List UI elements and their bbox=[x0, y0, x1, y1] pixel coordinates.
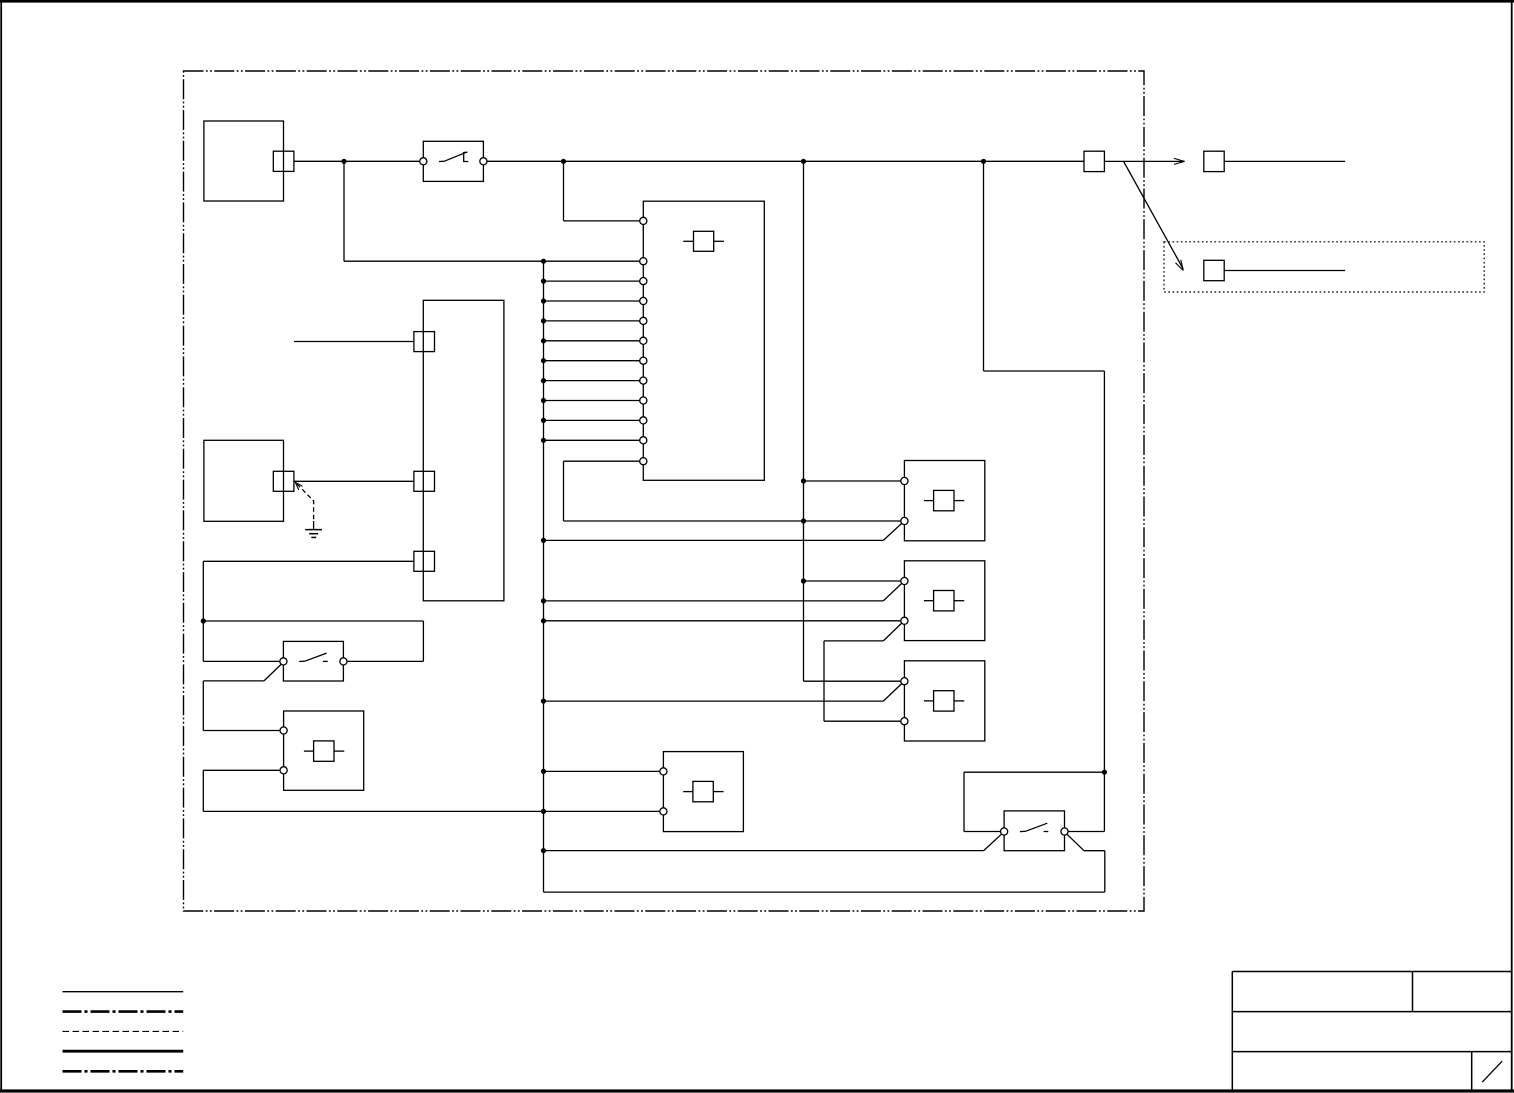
wire: into F1 lower pin bbox=[203, 769, 283, 771]
node: bus junction pin 2 bbox=[541, 279, 546, 284]
wire: left riser lower bbox=[202, 770, 204, 811]
node: relay bus at K2 upper bbox=[801, 578, 806, 583]
switch blade at K2 upper pin bbox=[883, 583, 902, 601]
arrowhead to C2 bbox=[1174, 158, 1185, 164]
wire: loop top to S2 right side bbox=[203, 620, 423, 622]
wire: from C3 onward bbox=[1224, 270, 1345, 272]
switch S2 box bbox=[283, 641, 343, 681]
wire: bus to U1 pin 9 bbox=[544, 419, 644, 421]
wire: into F1 upper pin bbox=[203, 730, 283, 732]
vehicle enclosure boundary (dash-dot-dot) bbox=[184, 71, 1145, 911]
node: junction main/branch A bbox=[341, 159, 346, 164]
pin: U1 9 bbox=[640, 417, 647, 424]
wire: bus to F2 upper pin bbox=[544, 770, 664, 772]
node: relay bus at K1 lower bbox=[801, 518, 806, 523]
legend: solid heavy line bbox=[63, 1050, 184, 1053]
relay K1 box bbox=[904, 461, 984, 541]
wire: relay bus end to K3 upper pin bbox=[804, 680, 905, 682]
dashed ground lead bbox=[297, 484, 314, 521]
fuse box F2 bbox=[663, 752, 743, 832]
wire: left riser upper bbox=[202, 561, 204, 661]
pin: U1 5 bbox=[640, 337, 647, 344]
pin: U1 top bbox=[640, 217, 647, 224]
legend: dashed thin line bbox=[63, 1030, 184, 1032]
wire: cross drop to K3 lower bbox=[823, 641, 825, 721]
node: junction main/relay bus bbox=[801, 159, 806, 164]
node: bus junction K3 blade bbox=[541, 699, 546, 704]
wire: right drop horizontal bbox=[984, 370, 1105, 372]
pin: U1 3 bbox=[640, 297, 647, 304]
component B2 (sensor box) bbox=[204, 440, 284, 521]
F1 fuse element bbox=[314, 741, 334, 761]
switch S2 fixed contact dash bbox=[323, 660, 328, 662]
pin: S3 left bbox=[1001, 828, 1008, 835]
K1 fuse left lead bbox=[924, 500, 934, 502]
ground lead solid end bbox=[313, 521, 315, 530]
K2 fuse right lead bbox=[954, 600, 964, 602]
pin: U1 7 bbox=[640, 377, 647, 384]
junction block J1 box bbox=[423, 300, 504, 601]
fuse box F1 bbox=[284, 711, 364, 790]
wire: right drop vertical bbox=[983, 161, 985, 371]
node: right feeder junction bbox=[1102, 770, 1107, 775]
node: junction main/U1 top feed bbox=[561, 159, 566, 164]
K1 fuse right lead bbox=[954, 500, 964, 502]
title block diagonal slash bbox=[1482, 1061, 1502, 1082]
pin: U1 8 bbox=[640, 397, 647, 404]
F1 fuse right lead bbox=[334, 750, 344, 752]
arrowhead on ground lead bbox=[295, 482, 302, 490]
node: bus junction pin 10 bbox=[541, 438, 546, 443]
K2 fuse element bbox=[934, 591, 954, 611]
wire: long run to F2 lower pin bbox=[203, 810, 663, 812]
wire: bus to U1 pin 7 bbox=[544, 380, 644, 382]
pin: U1 2 bbox=[640, 278, 647, 285]
switch blade at K2 lower pin bbox=[883, 622, 902, 641]
wire: to S2 external blade bbox=[203, 680, 264, 682]
wire: switch S1 to connector C1 bbox=[483, 160, 1084, 162]
pin: U1 4 bbox=[640, 317, 647, 324]
node: bus junction F2 upper bbox=[541, 769, 546, 774]
switch S3 blade bbox=[1026, 823, 1048, 831]
wire: bus to U1 pin 2 bbox=[544, 280, 644, 282]
arrowhead to C3 bbox=[1176, 260, 1184, 271]
wire: bus to U1 pin 6 bbox=[544, 360, 644, 362]
wire: U1 bottom to relay K1 lower pin bbox=[564, 520, 905, 522]
node: bus junction pin 6 bbox=[541, 358, 546, 363]
switch blade at K3 upper pin bbox=[883, 683, 902, 701]
wire: stub to J1 terminal 1 bbox=[294, 341, 414, 343]
node: junction main/right drop bbox=[981, 159, 986, 164]
switch S3 fixed contact dash bbox=[1044, 831, 1049, 833]
wire: bus to K2 upper blade bbox=[544, 600, 884, 602]
wire: bus to U1 pin 10 bbox=[544, 439, 644, 441]
wire: K2 lower blade feed bbox=[824, 640, 883, 642]
pin: F1 lower bbox=[280, 767, 287, 774]
connector terminal on B2 bbox=[273, 471, 294, 491]
node: bus junction S3 blade bbox=[541, 848, 546, 853]
wire: U1 bottom pin out bbox=[564, 460, 644, 462]
pin: S2 right bbox=[340, 658, 347, 665]
pin: S2 left bbox=[280, 658, 287, 665]
optional variant group (dotted box) bbox=[1164, 242, 1484, 292]
K2 fuse left lead bbox=[924, 600, 934, 602]
wire: bus to S3 left blade bbox=[544, 850, 984, 852]
pin: U1 1 bbox=[640, 258, 647, 265]
switch S1 fixed contact hook bbox=[464, 154, 469, 162]
wire: into S2 right pin bbox=[343, 660, 423, 662]
wire: U1 bottom drop bbox=[563, 461, 565, 521]
pin: K1 lower bbox=[901, 517, 908, 524]
U1 internal fuse right lead bbox=[714, 240, 724, 242]
title block row1 divider bbox=[1412, 972, 1414, 1012]
pin: K1 upper bbox=[901, 477, 908, 484]
ground symbol bbox=[305, 530, 322, 538]
pin: S3 right bbox=[1061, 828, 1068, 835]
connector terminal 2 on J1 bbox=[414, 471, 435, 491]
wire: battery to switch S1 bbox=[294, 160, 423, 162]
U1 internal fuse element bbox=[694, 231, 714, 251]
page bottom border bar bbox=[0, 1089, 1514, 1092]
node: relay bus at K1 upper bbox=[801, 478, 806, 483]
node: left riser junction bbox=[201, 618, 206, 623]
connector C3 (optional) bbox=[1204, 260, 1224, 280]
wire: drop to U1 top pin bbox=[563, 161, 565, 221]
node: bus junction pin 3 bbox=[541, 298, 546, 303]
wire: bus to U1 pin 5 bbox=[544, 340, 644, 342]
wire: bus to K2 lower pin bbox=[544, 620, 905, 622]
switch S2 blade bbox=[305, 653, 327, 661]
U1 internal fuse left lead bbox=[683, 240, 693, 242]
pin: K2 lower bbox=[901, 617, 908, 624]
wire: left riser middle bbox=[202, 681, 204, 731]
wire: relay bus to K1 upper pin bbox=[804, 480, 905, 482]
K3 fuse right lead bbox=[954, 700, 964, 702]
pin: F2 lower bbox=[660, 808, 667, 815]
connector terminal 3 on J1 bbox=[414, 551, 435, 571]
F2 fuse right lead bbox=[713, 791, 723, 793]
wire: bus to K3 upper blade bbox=[544, 700, 884, 702]
wire: C1 to branch point bbox=[1104, 160, 1123, 162]
wire: S3 right pin to feeder bbox=[1065, 831, 1105, 833]
wire: sensor B2 to J1 terminal 2 bbox=[294, 480, 414, 482]
wire: bus to U1 pin 3 bbox=[544, 300, 644, 302]
wire: S3 loop top bbox=[964, 771, 1104, 773]
switch S1 blade bbox=[444, 152, 467, 161]
leader arrow to C3 (diagonal) bbox=[1124, 161, 1184, 269]
F2 fuse element bbox=[693, 781, 713, 801]
pin: U1 10 bbox=[640, 437, 647, 444]
title block frame bbox=[1232, 972, 1511, 1091]
node: bus junction pin 8 bbox=[541, 398, 546, 403]
page left border bbox=[0, 0, 2, 1092]
wire: relay bus to K2 upper pin bbox=[804, 580, 905, 582]
title block row3 divider bbox=[1471, 1052, 1473, 1091]
switch blade at S3 left pin bbox=[984, 833, 1003, 850]
wire: into U1 top pin bbox=[564, 220, 644, 222]
component B1 (source box) bbox=[204, 121, 284, 201]
legend: solid thin line bbox=[63, 991, 184, 993]
control unit U1 box bbox=[643, 201, 764, 480]
wire: branch A vertical bbox=[343, 161, 345, 261]
switch S2 left contact dash bbox=[299, 660, 305, 662]
K1 fuse element bbox=[934, 490, 954, 510]
wire: into K3 lower pin bbox=[824, 720, 904, 722]
F2 fuse left lead bbox=[683, 791, 693, 793]
pin: K2 upper bbox=[901, 577, 908, 584]
node: bus junction pin 1 bbox=[541, 259, 546, 264]
wire: right feeder vertical bbox=[1103, 371, 1105, 832]
node: bus junction pin 5 bbox=[541, 338, 546, 343]
connector C2 bbox=[1204, 151, 1224, 171]
wire: bus to U1 pin 8 bbox=[544, 400, 644, 402]
wire: bus to U1 pin 4 bbox=[544, 320, 644, 322]
leader arrow to C2 (horizontal) bbox=[1124, 160, 1185, 162]
K3 fuse element bbox=[934, 691, 954, 711]
pin: K3 upper bbox=[901, 678, 908, 685]
node: bus junction pin 9 bbox=[541, 418, 546, 423]
pin: S1 left bbox=[420, 158, 427, 165]
page right border bbox=[1511, 0, 1513, 1092]
wire: bus to K1 switch blade bbox=[544, 539, 884, 541]
node: bus junction pin 4 bbox=[541, 318, 546, 323]
switch S1 left contact dash bbox=[439, 160, 444, 162]
wire: branch A to U1 pin 1 bbox=[344, 260, 643, 262]
wire: left loop to J1 terminal 3 bbox=[203, 560, 414, 562]
switch S1 blade end dash bbox=[463, 151, 468, 154]
switch blade at S3 right pin bbox=[1066, 833, 1084, 850]
wire: right return drop bbox=[1104, 851, 1106, 892]
page top border bar bbox=[0, 0, 1514, 3]
node: bus junction K2 upper blade bbox=[541, 598, 546, 603]
node: bus junction K2 lower bbox=[541, 618, 546, 623]
wire: S3 loop left drop bbox=[963, 772, 965, 831]
pin: U1 6 bbox=[640, 357, 647, 364]
switch S1 box bbox=[423, 141, 483, 181]
connector terminal on B1 bbox=[273, 151, 294, 171]
wire: loop right drop bbox=[422, 621, 424, 661]
switch blade at K1 lower pin bbox=[883, 523, 902, 541]
connector terminal 1 on J1 bbox=[414, 332, 435, 352]
switch S3 left contact dash bbox=[1020, 830, 1026, 832]
wire: from C2 onward bbox=[1224, 160, 1345, 162]
legend: dash-dot heavy line 2 bbox=[63, 1070, 184, 1073]
pin: F1 upper bbox=[280, 727, 287, 734]
K3 fuse left lead bbox=[924, 700, 934, 702]
node: bus junction pin 7 bbox=[541, 378, 546, 383]
switch blade at S2 left pin bbox=[264, 664, 282, 681]
node: bus junction F2 lower bbox=[541, 809, 546, 814]
connector C1 (in-harness) bbox=[1084, 151, 1104, 171]
wire: into S3 left pin bbox=[964, 831, 1004, 833]
F1 fuse left lead bbox=[304, 750, 314, 752]
wire: relay bus vertical bbox=[803, 161, 805, 681]
switch S3 box bbox=[1004, 811, 1064, 851]
wire: bottom return run bbox=[544, 891, 1105, 893]
relay K2 box bbox=[904, 561, 984, 641]
pin: U1 bottom bbox=[640, 458, 647, 465]
relay K3 box bbox=[904, 661, 984, 741]
pin: K3 lower bbox=[901, 718, 908, 725]
pin: F2 upper bbox=[660, 768, 667, 775]
wire: S3 right blade out bbox=[1084, 850, 1105, 852]
wire: into S2 left pin bbox=[203, 660, 283, 662]
pin: S1 right bbox=[480, 158, 487, 165]
wire: main vertical bus bbox=[543, 261, 545, 892]
legend: dash-dot heavy line bbox=[63, 1010, 184, 1013]
node: bus junction K1 blade bbox=[541, 538, 546, 543]
